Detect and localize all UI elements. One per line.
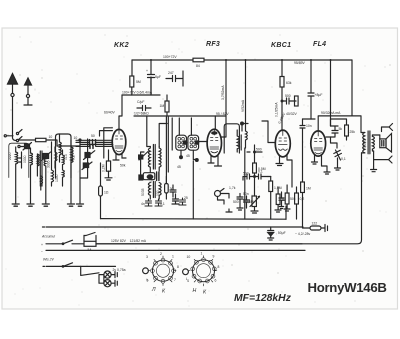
antenna 1 — [8, 80, 18, 138]
resistor 0.5M — [253, 163, 257, 173]
resistor 63k — [280, 77, 284, 88]
tube RF3 bottom leads — [208, 156, 222, 167]
resistor 122 — [303, 227, 310, 229]
svg-text:0,1μF: 0,1μF — [149, 174, 153, 183]
svg-text:, 50μF: , 50μF — [276, 231, 286, 235]
svg-text:1Ω: 1Ω — [104, 191, 109, 195]
shielded coil L9 — [60, 134, 62, 162]
osc coil — [237, 130, 239, 152]
IF transformer 1 winding a — [148, 147, 150, 173]
svg-text:MF=128kHz: MF=128kHz — [234, 293, 292, 304]
resistor 0.3 — [276, 194, 280, 205]
pickup jack — [215, 191, 221, 197]
socket S2 outer — [193, 260, 215, 282]
tube KBC1 ground — [276, 156, 283, 166]
svg-text:KK2: KK2 — [114, 42, 129, 49]
resistor 25k — [345, 125, 349, 136]
svg-text:50: 50 — [91, 134, 95, 138]
B+ bus — [46, 226, 303, 228]
cap g — [172, 194, 179, 204]
svg-text:+: + — [41, 243, 43, 247]
tuning coil L1 — [15, 147, 17, 152]
wire — [330, 60, 332, 126]
socket S2 inner — [197, 264, 211, 278]
svg-text:10: 10 — [74, 136, 78, 140]
lamp 1 — [104, 271, 111, 278]
heater bus — [101, 218, 287, 221]
svg-text:~ 4,2/-28v: ~ 4,2/-28v — [295, 232, 310, 236]
osc feedback wire — [244, 148, 246, 219]
grid cap lead — [214, 116, 216, 130]
IF can B — [188, 135, 199, 150]
transformer ground — [371, 160, 377, 172]
tube FL4 envelope — [311, 131, 326, 156]
resistor 1M — [165, 101, 169, 112]
svg-text:45: 45 — [177, 165, 181, 169]
svg-text:5M: 5M — [136, 80, 141, 84]
fuse box 5A — [84, 241, 96, 246]
coupling parts right of FL4 — [326, 126, 338, 137]
grid pair verticals — [166, 117, 172, 184]
svg-text:2v 0,75a: 2v 0,75a — [113, 268, 126, 272]
wire to 63k — [281, 60, 283, 77]
tube FL4 electrodes — [314, 131, 322, 150]
socket S1 inner — [156, 264, 169, 277]
svg-text:0,2M: 0,2M — [102, 164, 106, 172]
wire — [57, 140, 80, 204]
svg-text:500: 500 — [243, 172, 249, 176]
coupling coil L3 with core — [37, 154, 39, 176]
heater bus left rise — [192, 161, 194, 219]
svg-text:63k: 63k — [286, 81, 292, 85]
svg-text:1: 1 — [201, 252, 203, 256]
svg-text:5k: 5k — [339, 127, 343, 131]
svg-text:10: 10 — [49, 135, 53, 139]
svg-text:2220: 2220 — [8, 152, 12, 160]
speaker terminal fork top — [382, 124, 393, 132]
svg-text:HornyW146B: HornyW146B — [308, 280, 387, 295]
svg-text:0330: 0330 — [23, 155, 27, 163]
svg-text:1,7k: 1,7k — [229, 186, 236, 190]
wire to output transformer — [351, 60, 353, 116]
svg-text:030: 030 — [156, 190, 160, 196]
trimmer T3 — [85, 153, 90, 158]
svg-text:45: 45 — [186, 154, 190, 158]
tube RF3 envelope — [207, 129, 221, 157]
wire with resistor 10 — [19, 140, 57, 146]
resistor 0.2 — [295, 193, 299, 204]
svg-text:Accumul: Accumul — [41, 235, 55, 239]
svg-text:3335: 3335 — [47, 160, 51, 168]
ground G4 — [68, 204, 75, 206]
cap across L2 — [19, 152, 22, 168]
resistor small — [295, 96, 299, 106]
svg-text:51/13Ω: 51/13Ω — [363, 139, 367, 150]
switch blade 2 — [63, 263, 73, 267]
svg-text:FL4: FL4 — [313, 41, 326, 48]
capacitor 247 — [166, 71, 183, 86]
svg-text:25k: 25k — [350, 130, 356, 134]
svg-text:2: 2 — [160, 252, 162, 256]
switch blade 1 — [63, 240, 73, 244]
tube KK2 cathode leads — [113, 154, 126, 161]
tube RF3 plate blob — [211, 131, 217, 135]
capacitor C/uF — [137, 106, 151, 111]
resistor 0.2M cathode — [106, 161, 110, 171]
svg-text:100+72V 0.6/0.4mA: 100+72V 0.6/0.4mA — [122, 91, 153, 95]
svg-text:013: 013 — [64, 154, 68, 160]
output transformer primary — [363, 133, 365, 153]
osc coil box — [224, 124, 239, 153]
svg-text:3,7/52mA: 3,7/52mA — [221, 85, 225, 100]
resistor 30 — [165, 184, 169, 194]
wire — [20, 146, 28, 148]
resistor 5M — [130, 76, 134, 87]
volume pot — [252, 196, 256, 207]
IF1 core — [153, 145, 155, 170]
wire from bus down left — [131, 60, 133, 76]
svg-text:100+72V: 100+72V — [163, 55, 177, 59]
series cap Cb — [90, 145, 93, 149]
cap 500 left — [243, 174, 255, 180]
band switch contacts — [13, 138, 17, 141]
capacitor 8uF — [148, 60, 155, 95]
IF1 top leads — [147, 116, 167, 147]
svg-text:RF3: RF3 — [206, 41, 220, 48]
svg-text:1M: 1M — [160, 104, 165, 108]
coil L4 — [52, 142, 54, 186]
tone cap tilted — [334, 150, 342, 160]
grid cap 10n — [300, 119, 305, 182]
svg-text:1M: 1M — [306, 187, 311, 191]
detector chain wire — [254, 145, 256, 163]
trimmer cap T1 — [25, 144, 30, 149]
ground pot area — [226, 209, 232, 212]
cap 100 — [170, 185, 176, 197]
svg-text:247: 247 — [168, 71, 174, 75]
svg-text:KBC1: KBC1 — [271, 42, 291, 49]
cap 0.1 right — [255, 174, 269, 179]
elco 25 — [179, 198, 186, 205]
tube KK2 electrodes — [115, 130, 123, 149]
socket S1 outer — [152, 260, 173, 281]
IF transformer 1 winding b — [159, 147, 161, 172]
svg-text:0,1: 0,1 — [258, 170, 263, 174]
coil L8 — [63, 150, 65, 186]
svg-text:6: 6 — [215, 279, 217, 283]
trimmer T4 — [83, 163, 88, 168]
speaker cone — [386, 134, 392, 153]
elco 50uF — [268, 227, 274, 240]
svg-text:500: 500 — [256, 148, 262, 152]
svg-text:8: 8 — [218, 265, 220, 269]
svg-text:500: 500 — [233, 200, 239, 204]
svg-text:90/32mA mA: 90/32mA mA — [321, 111, 341, 115]
svg-text:7: 7 — [174, 278, 176, 282]
tube KBC1 left lead — [262, 121, 275, 143]
speaker terminal fork bottom — [374, 151, 392, 163]
anode feed wire — [352, 116, 365, 133]
svg-text:8μF: 8μF — [155, 75, 161, 79]
cap 50n — [244, 196, 250, 208]
output transformer core — [368, 131, 370, 154]
heater risers — [285, 206, 287, 219]
svg-text:1: 1 — [172, 255, 174, 259]
transformer leads — [362, 135, 380, 153]
resistor 50k — [285, 193, 289, 204]
AVC resistor 1.5M — [269, 181, 273, 192]
bypass switch — [84, 233, 96, 242]
IF1 core lower — [153, 182, 155, 198]
svg-text:122: 122 — [312, 222, 318, 226]
socket S1 side contact — [143, 268, 149, 274]
svg-text:50n: 50n — [243, 192, 249, 196]
svg-text:30: 30 — [170, 187, 174, 191]
resistor 10 — [36, 138, 47, 141]
socket S1 pins — [151, 258, 176, 283]
svg-text:0,1: 0,1 — [341, 157, 346, 161]
svg-text:4n: 4n — [141, 202, 145, 206]
speaker return wire — [96, 153, 362, 244]
svg-text:L: L — [147, 278, 149, 282]
svg-text:125V 82V 121/82 mA: 125V 82V 121/82 mA — [111, 239, 147, 243]
svg-text:10n: 10n — [306, 124, 312, 128]
svg-text:3: 3 — [146, 255, 148, 259]
cap 5n avc — [279, 192, 284, 209]
wire with cap 8uF2 — [308, 60, 314, 119]
wire — [245, 60, 247, 131]
tube KBC1 electrodes — [279, 130, 288, 145]
svg-text:40/32V: 40/32V — [286, 112, 297, 116]
IF1 trimmer arrow — [139, 155, 143, 159]
svg-text:0,1: 0,1 — [160, 202, 165, 206]
svg-text:Wls 2V: Wls 2V — [43, 258, 54, 262]
coil group box — [9, 143, 29, 177]
tuning coil L2 — [30, 148, 32, 153]
HT supply bus wire — [132, 59, 352, 61]
grid wire bundle — [76, 140, 113, 146]
heater plus row — [46, 265, 116, 267]
ground G1 — [12, 204, 19, 206]
lamp 2 — [104, 280, 111, 287]
svg-text:10: 10 — [187, 255, 191, 259]
tube KK2 envelope — [112, 129, 126, 154]
tube RF3 electrodes — [210, 130, 219, 149]
IF1 trim square — [139, 175, 143, 180]
svg-text:+: + — [146, 69, 148, 73]
antenna coil L7 — [71, 140, 73, 203]
coil L6 with core — [41, 176, 43, 190]
lamp branch — [81, 266, 104, 283]
output transformer secondary — [372, 136, 374, 149]
wire — [131, 87, 133, 95]
svg-text:1350: 1350 — [55, 174, 59, 182]
svg-text:25: 25 — [184, 196, 188, 200]
resistor 1M grid leak — [301, 182, 305, 193]
heater resistor 1ohm — [99, 186, 103, 196]
svg-text:8: 8 — [177, 265, 179, 269]
svg-text:60/40V: 60/40V — [104, 111, 115, 115]
coil L5 — [55, 147, 57, 168]
screen feed wire — [122, 77, 160, 95]
resistor B4 on bus — [193, 58, 204, 62]
ground G3 — [42, 204, 49, 206]
svg-text:95/89V: 95/89V — [294, 61, 305, 65]
svg-text:+8μF: +8μF — [315, 93, 323, 97]
tube FL4 bottom leads — [312, 155, 331, 174]
elco 0.1 — [155, 199, 162, 206]
grid branch verticals — [100, 128, 113, 158]
tube RF3 left lead — [199, 141, 208, 143]
svg-text:0,1/25mA: 0,1/25mA — [275, 102, 279, 117]
svg-text:C/μF: C/μF — [137, 100, 144, 104]
scan speckle noise — [6, 35, 391, 307]
socket S2 pins — [191, 258, 216, 283]
IF1 padder box — [143, 173, 155, 180]
svg-text:500: 500 — [285, 94, 291, 98]
wire — [281, 87, 283, 130]
svg-text:0,2: 0,2 — [72, 155, 76, 160]
series cap Ca — [90, 140, 96, 146]
tube FL4 top lead — [311, 116, 352, 131]
svg-text:9: 9 — [213, 255, 215, 259]
capacitor 500 — [282, 98, 296, 104]
svg-text:95 / 82V: 95 / 82V — [216, 112, 229, 116]
socket S2 side contact — [183, 269, 189, 275]
tube KBC1 envelope — [275, 130, 290, 157]
tube KK2 top lead — [119, 95, 122, 130]
speaker driver — [380, 139, 386, 148]
svg-text:84: 84 — [196, 64, 200, 68]
svg-text:Н: Н — [193, 288, 197, 294]
ground G5 — [77, 204, 84, 206]
IF1 series bars — [157, 172, 159, 181]
svg-text:−: − — [41, 250, 43, 254]
svg-text:50k: 50k — [120, 164, 126, 168]
svg-text:V/52mA: V/52mA — [241, 99, 245, 112]
IF1 lower winding b — [159, 183, 161, 200]
elco 4n — [145, 199, 152, 206]
svg-text:L: L — [186, 277, 188, 281]
IF can A — [176, 135, 187, 150]
svg-text:Л: Л — [151, 287, 156, 293]
can leads — [179, 118, 196, 160]
wire chassis left — [100, 163, 102, 219]
antenna 2 — [24, 85, 32, 105]
aerial terminal wire — [7, 135, 14, 137]
trimmer cap T2 — [43, 154, 49, 159]
shield box — [56, 134, 72, 178]
cap 500b — [237, 194, 243, 211]
bus junction dots — [150, 59, 152, 61]
ground G2 — [27, 204, 34, 206]
anode wire tube2 — [221, 60, 226, 137]
IF1 lower winding a — [148, 183, 150, 200]
svg-text:1/2=68kΩ: 1/2=68kΩ — [134, 112, 149, 116]
svg-text:5035: 5035 — [141, 188, 145, 196]
